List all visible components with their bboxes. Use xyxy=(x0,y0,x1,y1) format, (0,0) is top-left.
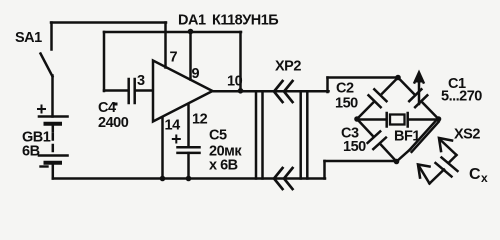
svg-text:C5: C5 xyxy=(209,128,227,144)
svg-text:150: 150 xyxy=(335,96,358,112)
svg-text:7: 7 xyxy=(170,50,178,66)
svg-text:DA1: DA1 xyxy=(178,13,206,29)
svg-text:х: х xyxy=(481,171,488,185)
svg-text:C4: C4 xyxy=(98,100,116,116)
svg-text:ХР2: ХР2 xyxy=(275,59,301,75)
svg-text:6В: 6В xyxy=(22,144,40,160)
svg-text:150: 150 xyxy=(343,139,366,155)
svg-text:К118УН1Б: К118УН1Б xyxy=(212,13,278,29)
svg-text:14: 14 xyxy=(165,118,181,134)
svg-text:2400: 2400 xyxy=(98,115,129,131)
svg-text:12: 12 xyxy=(192,112,208,128)
svg-text:C2: C2 xyxy=(336,81,354,97)
svg-text:х 6В: х 6В xyxy=(209,158,238,174)
svg-text:BF1: BF1 xyxy=(394,129,420,145)
svg-text:9: 9 xyxy=(192,66,200,82)
svg-text:10: 10 xyxy=(227,74,243,90)
svg-text:5...270: 5...270 xyxy=(441,89,482,105)
svg-text:C: C xyxy=(469,166,481,183)
svg-text:XS2: XS2 xyxy=(454,127,480,143)
svg-text:SA1: SA1 xyxy=(15,30,42,46)
svg-text:3: 3 xyxy=(137,73,145,89)
